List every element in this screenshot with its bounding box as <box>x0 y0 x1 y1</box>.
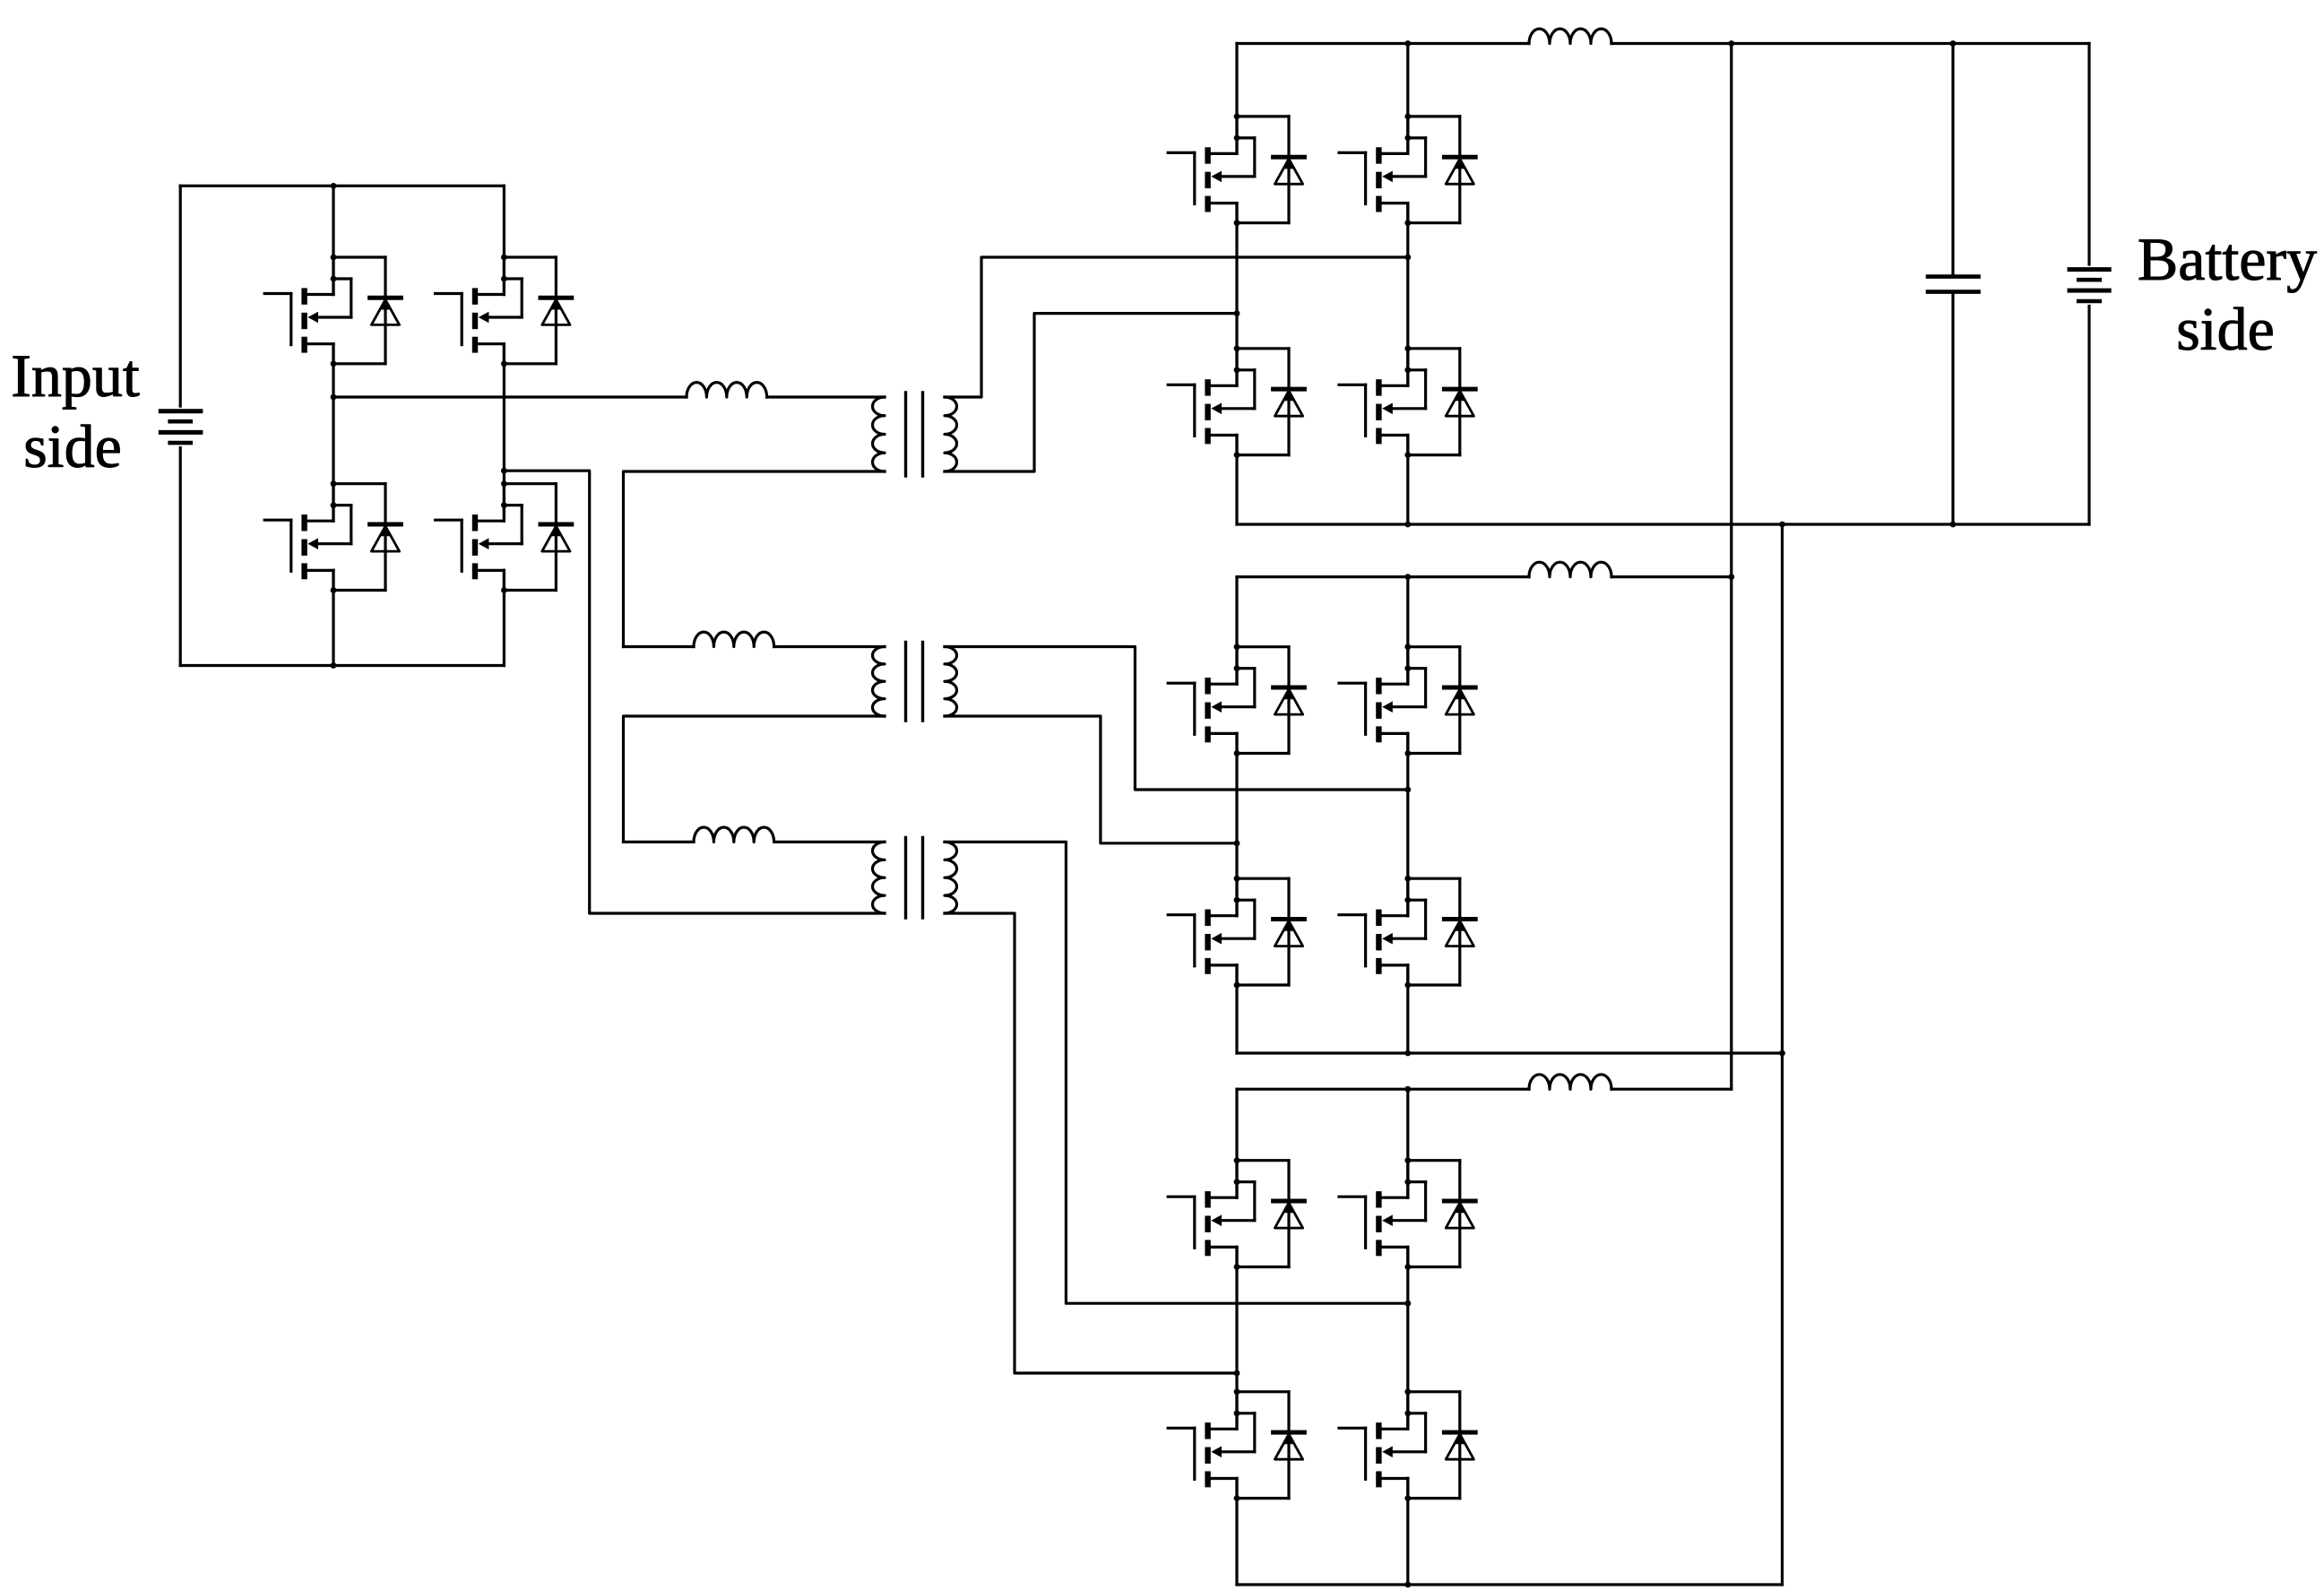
body diode of Q7 <box>1237 349 1304 455</box>
wire T2 secondary bottom to bridge-B left midpoint <box>945 716 1240 846</box>
MOSFET Q8 <box>1339 345 1426 458</box>
MOSFET Q3 <box>264 480 351 593</box>
wire T3 secondary bottom to bridge-C left midpoint <box>945 913 1240 1376</box>
transformer T2 secondary winding <box>945 647 957 717</box>
body diode of Q1 <box>333 257 401 364</box>
transformer T1 core <box>906 393 923 476</box>
MOSFET Q12 <box>1339 876 1426 989</box>
input DC source battery <box>160 186 201 665</box>
MOSFET Q2 <box>436 255 523 367</box>
MOSFET Q6 <box>1339 113 1426 226</box>
wire input bridge bottom rail <box>180 662 504 669</box>
wire bridge-B left leg <box>1235 577 1238 1053</box>
MOSFET Q15 <box>1168 1388 1255 1501</box>
node input-bridge right midpoint <box>501 468 507 474</box>
wire primary rail 2 (to T2) <box>624 645 886 648</box>
inductor L4 (bridge-A output) <box>1529 29 1611 43</box>
body diode of Q13 <box>1237 1161 1304 1267</box>
wire input bridge right leg <box>503 186 505 665</box>
wire primary rail 1 (left midpoint to T1) <box>333 395 885 398</box>
wire bridge-B top rail <box>1237 574 1734 580</box>
wire T1 secondary bottom to bridge-A left midpoint <box>945 310 1240 471</box>
inductor L1 <box>687 383 767 397</box>
body diode of Q8 <box>1408 349 1475 455</box>
wire bridge-C bottom rail <box>1237 1582 1783 1588</box>
MOSFET Q16 <box>1339 1388 1426 1501</box>
wire input bridge top rail <box>180 183 504 189</box>
MOSFET Q14 <box>1339 1157 1426 1270</box>
wire T2 secondary top to bridge-B right midpoint <box>945 647 1411 793</box>
wire negative bus (bridge returns) <box>1781 524 1784 1585</box>
body diode of Q9 <box>1237 647 1304 754</box>
MOSFET Q10 <box>1339 644 1426 756</box>
body diode of Q11 <box>1237 878 1304 985</box>
MOSFET Q4 <box>436 480 523 593</box>
body diode of Q14 <box>1408 1161 1475 1267</box>
capacitor C1 <box>1928 44 1979 525</box>
wire bridge-A bottom rail to battery bus <box>1237 522 2089 528</box>
wire primary rail 3 (to T3) <box>624 841 886 843</box>
svg-text:side: side <box>2176 295 2275 363</box>
transformer T3 primary winding <box>873 842 886 913</box>
body diode of Q2 <box>504 257 571 364</box>
wire bridge-C left leg <box>1235 1089 1238 1585</box>
MOSFET Q13 <box>1168 1157 1255 1270</box>
MOSFET Q7 <box>1168 345 1255 458</box>
transformer T2 core <box>906 643 923 722</box>
wire bridge-A right leg <box>1406 44 1409 525</box>
body diode of Q3 <box>333 484 401 591</box>
svg-text:Input: Input <box>11 341 140 410</box>
wire T1 secondary top to bridge-A right midpoint <box>945 255 1411 397</box>
label Battery side <box>2138 225 2317 363</box>
node input-bridge left midpoint <box>331 394 337 401</box>
wire T3 secondary top to bridge-C right midpoint <box>945 842 1411 1306</box>
wire bridge-C top rail <box>1237 1086 1732 1093</box>
svg-text:side: side <box>23 412 122 480</box>
svg-text:Battery: Battery <box>2138 225 2317 293</box>
body diode of Q16 <box>1408 1392 1475 1499</box>
wire bridge-A top rail to battery bus <box>1237 40 2089 47</box>
body diode of Q4 <box>504 484 571 591</box>
body diode of Q15 <box>1237 1392 1304 1499</box>
transformer T2 primary winding <box>873 647 885 717</box>
wire T3 primary return to right midpoint <box>504 471 885 913</box>
wire bridge-C right leg <box>1406 1089 1409 1585</box>
body diode of Q12 <box>1408 878 1475 985</box>
body diode of Q10 <box>1408 647 1475 754</box>
transformer T1 primary winding <box>873 397 885 471</box>
inductor L5 (bridge-B output) <box>1529 562 1611 576</box>
wire bridge-A left leg <box>1235 44 1238 525</box>
MOSFET Q5 <box>1168 113 1255 226</box>
transformer T1 secondary winding <box>945 397 957 471</box>
transformer T3 secondary winding <box>945 842 957 913</box>
inductor L6 (bridge-C output) <box>1529 1075 1611 1089</box>
battery-side battery <box>2069 44 2109 525</box>
MOSFET Q1 <box>264 255 351 367</box>
inductor L3 <box>694 827 774 842</box>
body diode of Q5 <box>1237 117 1304 223</box>
MOSFET Q9 <box>1168 644 1255 756</box>
wire input bridge left leg <box>332 186 334 665</box>
label Input side <box>11 341 140 480</box>
transformer T3 core <box>906 837 923 918</box>
wire positive bus (bridge outputs) <box>1730 44 1732 1090</box>
wire T1 primary return to chain <box>624 471 886 647</box>
wire T2 primary return to chain <box>624 716 886 842</box>
wire bridge-B bottom rail <box>1237 1050 1785 1057</box>
wire bridge-B right leg <box>1406 577 1409 1053</box>
inductor L2 <box>694 632 774 646</box>
body diode of Q6 <box>1408 117 1475 223</box>
MOSFET Q11 <box>1168 876 1255 989</box>
